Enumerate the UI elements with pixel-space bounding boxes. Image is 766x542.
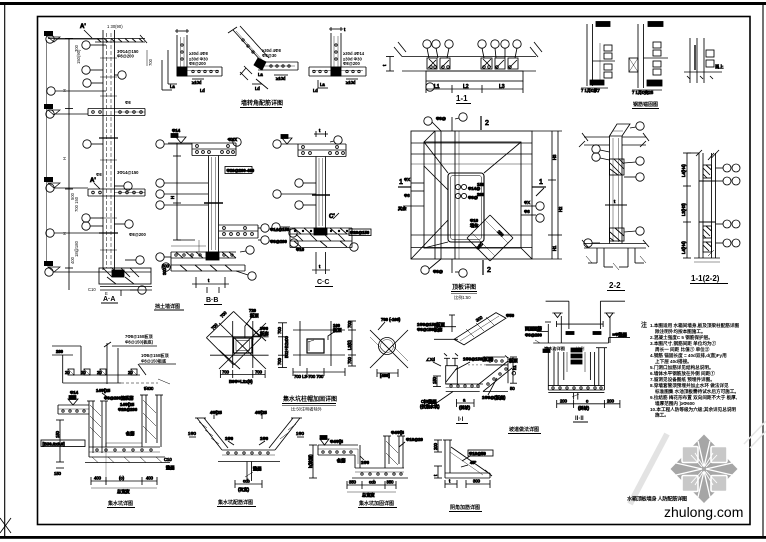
2-2 mid tick bbox=[605, 204, 627, 206]
wall A-A level marker connector line bbox=[46, 40, 48, 266]
svg-text:300: 300 bbox=[162, 267, 167, 275]
svg-text:1Φ8@(板底): 1Φ8@(板底) bbox=[482, 394, 506, 401]
II-II top hooks bbox=[545, 347, 551, 349]
svg-text:H3: H3 bbox=[552, 154, 557, 160]
plan section mark 1 right bbox=[532, 186, 546, 188]
svg-text:ΦX: ΦX bbox=[404, 177, 410, 182]
svg-text:ΦXX: ΦXX bbox=[228, 137, 237, 142]
C-C wall verticals bbox=[315, 157, 317, 229]
wall A-A left dimension line bbox=[68, 38, 70, 290]
plan inner square bbox=[424, 142, 521, 248]
svg-text:Φ10@20: Φ10@20 bbox=[406, 437, 424, 442]
svg-text:Φ8: Φ8 bbox=[125, 100, 131, 105]
2-2 top cap parallelogram bbox=[610, 124, 631, 136]
svg-text:20: 20 bbox=[65, 370, 70, 375]
svg-text:墙体: 墙体 bbox=[470, 222, 479, 229]
svg-text:1Φ8@150(板顶): 1Φ8@150(板顶) bbox=[463, 356, 494, 363]
2-2 hatched box lower bbox=[610, 228, 625, 241]
1-1 top slab band bbox=[402, 56, 536, 58]
svg-text:500: 500 bbox=[162, 264, 170, 269]
svg-text:2: 2 bbox=[485, 120, 489, 127]
svg-text:La: La bbox=[320, 82, 325, 87]
plan section mark 1 left bbox=[398, 186, 411, 188]
svg-text:200: 200 bbox=[560, 399, 568, 404]
ramp detail (mid right) bbox=[417, 313, 515, 345]
svg-text:L4(H4): L4(H4) bbox=[681, 241, 686, 254]
svg-text:H: H bbox=[170, 196, 175, 199]
foundation detail 1 (bottom left U) bbox=[41, 386, 175, 495]
svg-text:700: 700 bbox=[347, 356, 352, 364]
1-1 stirrup boxes right group bbox=[481, 58, 492, 69]
2-2 leader circles bbox=[636, 122, 644, 130]
svg-text:施工。: 施工。 bbox=[654, 412, 669, 419]
I-I left block bbox=[446, 366, 458, 384]
svg-text:≥10d: ≥10d bbox=[276, 76, 286, 81]
svg-text:50: 50 bbox=[510, 386, 515, 391]
B-B rebar label box bbox=[170, 128, 255, 199]
corner detail 1 (L-corner left) bbox=[162, 29, 222, 93]
svg-text:墙厚范围内 ]≥Φ600: 墙厚范围内 ]≥Φ600 bbox=[655, 400, 695, 407]
svg-text:板顶: 板顶 bbox=[250, 312, 259, 319]
diamond right dim bbox=[282, 323, 284, 368]
svg-text:集水坑详图: 集水坑详图 bbox=[107, 500, 133, 507]
angle vertical leg bbox=[444, 440, 446, 478]
diamond circle detail bbox=[370, 317, 408, 378]
svg-text:墙转角配筋详图: 墙转角配筋详图 bbox=[241, 99, 283, 107]
svg-text:3Φ14@150: 3Φ14@150 bbox=[117, 170, 139, 175]
svg-text:挡土墙详图: 挡土墙详图 bbox=[154, 303, 180, 310]
B-B lower slab right bbox=[219, 224, 290, 244]
svg-text:Φ4Φ[5: Φ4Φ[5 bbox=[330, 439, 344, 444]
svg-text:18@180: 18@180 bbox=[74, 240, 79, 257]
wall A-A wall tick marks bbox=[100, 57, 117, 59]
svg-text:La: La bbox=[258, 72, 263, 77]
svg-text:150: 150 bbox=[432, 376, 437, 384]
svg-text:面层配筋: 面层配筋 bbox=[525, 325, 543, 332]
svg-text:H2: H2 bbox=[558, 206, 563, 212]
top-right ladder detail 3 bbox=[684, 38, 723, 83]
svg-text:≥30d 4Φ14: ≥30d 4Φ14 bbox=[343, 51, 365, 56]
svg-text:Φ8@200: Φ8@200 bbox=[129, 232, 147, 237]
svg-text:L4(H4): L4(H4) bbox=[681, 164, 686, 177]
svg-text:上下层 40d搭接。: 上下层 40d搭接。 bbox=[655, 358, 692, 365]
svg-text:板顶: 板顶 bbox=[509, 357, 518, 364]
svg-text:200: 200 bbox=[607, 399, 615, 404]
wall section B-B (middle detail) bbox=[156, 134, 241, 253]
wall A-A section flags bbox=[80, 24, 100, 189]
diamond outline bbox=[206, 311, 233, 337]
C-C extra marks bbox=[290, 218, 316, 220]
section 1-1 (horizontal beam strip) bbox=[382, 40, 542, 93]
corner detail 3 (L-corner right) bbox=[309, 27, 366, 93]
svg-text:2: 2 bbox=[487, 267, 491, 274]
svg-text:各筋: 各筋 bbox=[125, 430, 135, 437]
B-B leader circles bbox=[156, 140, 164, 148]
U2 left flared wall bbox=[197, 418, 222, 450]
F3 bottom dims bbox=[347, 484, 396, 486]
wall A-A rotated dim texts bbox=[62, 24, 123, 296]
angle leader label bbox=[468, 450, 493, 456]
wall A-A rebar label blobs bbox=[96, 49, 147, 237]
svg-text:H: H bbox=[62, 232, 67, 235]
svg-text:总宽度: 总宽度 bbox=[362, 492, 375, 499]
svg-text:Φ8@150(板底): Φ8@150(板底) bbox=[125, 339, 154, 346]
C-C top dim bbox=[314, 133, 328, 135]
plan diagonals bbox=[424, 142, 448, 173]
wall A-A slab level 3 bbox=[88, 188, 145, 190]
svg-text:700 150: 700 150 bbox=[74, 196, 79, 212]
1-1(2-2) verticals bbox=[698, 153, 700, 258]
square grid column detail bbox=[293, 320, 356, 379]
svg-text:700: 700 bbox=[255, 370, 263, 375]
svg-text:200: 200 bbox=[56, 349, 64, 354]
svg-text:垫层: 垫层 bbox=[166, 464, 175, 471]
wall section C-C (third detail) bbox=[273, 128, 346, 228]
II-II dims bbox=[557, 403, 620, 405]
svg-text:标准图集 水池顶板需待试水后方可施工。: 标准图集 水池顶板需待试水后方可施工。 bbox=[654, 388, 739, 395]
svg-text:400: 400 bbox=[94, 476, 102, 481]
angle horizontal leg bbox=[445, 472, 490, 474]
outer border bottom bar bbox=[0, 536, 766, 539]
svg-text:Φ4Φ[5: Φ4Φ[5 bbox=[391, 430, 405, 435]
svg-text:6.墙体水平钢筋放在外侧 间距①: 6.墙体水平钢筋放在外侧 间距① bbox=[650, 370, 715, 377]
svg-text:h(坑深): h(坑深) bbox=[307, 454, 314, 468]
svg-text:9.拉结筋 梅花形布置 双向间距不大于 板厚,: 9.拉结筋 梅花形布置 双向间距不大于 板厚, bbox=[650, 394, 737, 401]
svg-text:[B30.0x9.0]: [B30.0x9.0] bbox=[43, 442, 66, 447]
svg-text:4Φ[25: 4Φ[25 bbox=[210, 410, 222, 415]
svg-text:A': A' bbox=[80, 24, 86, 30]
svg-text:Φ14: Φ14 bbox=[70, 390, 79, 395]
svg-text:L3(H3): L3(H3) bbox=[681, 203, 686, 216]
zhulong logo pinwheel bbox=[671, 435, 738, 504]
diamond column grid bbox=[232, 321, 234, 368]
svg-text:I·I: I·I bbox=[458, 417, 464, 423]
2-2 top slab lines with break bbox=[584, 136, 610, 138]
F3 right wall bbox=[384, 436, 386, 468]
F3 top-left slab bbox=[318, 444, 358, 446]
svg-text:Φ10@50: Φ10@50 bbox=[469, 451, 487, 456]
I-I lower slab bbox=[446, 383, 483, 385]
U1 right wall bbox=[141, 395, 143, 447]
notes block bbox=[641, 321, 739, 419]
II-II right wall bbox=[598, 348, 600, 386]
svg-text:5.门洞口加筋详见结构总说明。: 5.门洞口加筋详见结构总说明。 bbox=[650, 364, 714, 371]
svg-text:A': A' bbox=[90, 178, 96, 184]
svg-text:400: 400 bbox=[146, 476, 154, 481]
wall A-A slab level 2 bbox=[88, 108, 145, 110]
svg-text:Ld: Ld bbox=[255, 86, 260, 91]
plan view (shaft plan) bbox=[398, 113, 563, 277]
U1 bottom slab bbox=[89, 446, 160, 448]
2-2 wall verticals bbox=[609, 136, 611, 244]
svg-text:20: 20 bbox=[128, 370, 133, 375]
svg-text:150: 150 bbox=[54, 471, 62, 476]
U1 left dims bbox=[59, 420, 61, 462]
II-II left wall bbox=[547, 348, 549, 390]
svg-text:≥10d: ≥10d bbox=[346, 80, 356, 85]
plan outer square bbox=[411, 131, 532, 259]
svg-text:Ld: Ld bbox=[200, 88, 205, 93]
top-right ladder detail 1 bbox=[581, 22, 615, 95]
svg-text:垫层: 垫层 bbox=[253, 465, 262, 472]
wall section A-A (tall left elevation) bbox=[48, 30, 152, 296]
svg-text:Ld: Ld bbox=[313, 88, 318, 93]
svg-text:(仅集水坑): (仅集水坑) bbox=[420, 403, 440, 410]
wall A-A level markers bbox=[44, 31, 60, 272]
square grid right dim bbox=[351, 321, 353, 366]
svg-text:(o): (o) bbox=[119, 476, 125, 481]
svg-text:1: 1 bbox=[539, 179, 543, 186]
svg-text:150: 150 bbox=[55, 430, 60, 438]
top-right ladder detail 2 bbox=[629, 22, 668, 97]
svg-text:各筋: 各筋 bbox=[336, 457, 346, 464]
U1 left wall bbox=[88, 401, 90, 457]
1-1 leader circles top bbox=[423, 40, 431, 48]
corner detail 3 rebar labels bbox=[343, 51, 365, 66]
svg-text:C10: C10 bbox=[164, 457, 172, 462]
diamond column center rect bbox=[234, 338, 253, 353]
svg-text:比例1:50: 比例1:50 bbox=[454, 294, 471, 301]
B-B dim line left bbox=[176, 143, 178, 240]
watermark faint diagonal top-right corner bbox=[744, 421, 766, 448]
1-1 bottom dim line bbox=[426, 88, 523, 90]
svg-text:当上: 当上 bbox=[715, 63, 723, 70]
wall A-A verticals bbox=[102, 30, 104, 270]
plan left small leaders bbox=[411, 182, 424, 184]
1-1(2-2) bottom line bbox=[694, 257, 720, 259]
svg-text:H: H bbox=[62, 157, 67, 160]
svg-text:集水坑加固详图: 集水坑加固详图 bbox=[358, 500, 394, 507]
C-C level triangle bbox=[282, 138, 292, 144]
plan right dimension lines bbox=[551, 131, 553, 259]
svg-text:L3: L3 bbox=[499, 84, 505, 90]
svg-text:Φ20@200: Φ20@200 bbox=[118, 407, 138, 412]
foundation detail 3 (step footing) bbox=[307, 430, 424, 499]
C-C top slab bbox=[298, 143, 346, 145]
U1 inner lines bbox=[105, 443, 107, 447]
svg-text:1Φ0: 1Φ0 bbox=[361, 460, 370, 465]
svg-text:(斜坡): (斜坡) bbox=[578, 405, 590, 412]
svg-text:4.钢筋 锚固长度 = 40d双排,d(直)Fy用: 4.钢筋 锚固长度 = 40d双排,d(直)Fy用 bbox=[650, 352, 727, 359]
svg-text:1 30(90): 1 30(90) bbox=[107, 24, 123, 29]
svg-text:cob: cob bbox=[243, 479, 250, 484]
svg-text:其余: 其余 bbox=[398, 205, 407, 212]
svg-text:700: 700 bbox=[347, 320, 352, 328]
svg-text:Φ8: Φ8 bbox=[524, 209, 530, 214]
U1 labels bbox=[41, 440, 85, 447]
svg-text:总宽度: 总宽度 bbox=[117, 488, 130, 495]
plan top-left leader bbox=[424, 117, 432, 125]
svg-text:La: La bbox=[170, 84, 175, 89]
2-2 hatched box upper bbox=[610, 159, 625, 175]
diamond column detail bbox=[206, 308, 289, 384]
wall A-A top roof slab bbox=[48, 38, 145, 40]
mid-band trench profile detail bbox=[52, 342, 176, 384]
svg-text:1Φ0: 1Φ0 bbox=[296, 431, 305, 436]
svg-text:700 L3-700 700: 700 L3-700 700 bbox=[294, 374, 324, 379]
svg-text:1.本图适用 水箱间墙身,板及顶梁柱配筋详图: 1.本图适用 水箱间墙身,板及顶梁柱配筋详图 bbox=[650, 322, 739, 329]
wall A-A top slab hatch bbox=[97, 39, 101, 43]
II-II bottom slab bbox=[548, 385, 604, 387]
svg-text:Φ8@200: Φ8@200 bbox=[270, 239, 288, 244]
svg-text:1: 1 bbox=[399, 179, 403, 186]
plan section mark 2 bottom bbox=[482, 260, 484, 275]
C-C leader circles bbox=[273, 140, 281, 148]
svg-text:Φ8@200: Φ8@200 bbox=[189, 61, 207, 66]
svg-text:≥10d: ≥10d bbox=[192, 80, 202, 85]
svg-text:顶板详图: 顶板详图 bbox=[452, 283, 476, 291]
angle detail (L corner bottom) bbox=[433, 440, 493, 488]
B-B top slab bbox=[192, 142, 236, 144]
svg-text:Φ8: Φ8 bbox=[96, 172, 102, 177]
svg-text:1-1(2-2): 1-1(2-2) bbox=[691, 274, 720, 283]
svg-text:7.留洞见设备图纸 预埋件详图。: 7.留洞见设备图纸 预埋件详图。 bbox=[650, 376, 715, 383]
svg-text:Φ8@: Φ8@ bbox=[436, 116, 446, 121]
svg-text:比:50注明者除外: 比:50注明者除外 bbox=[291, 406, 323, 413]
svg-text:板顶: 板顶 bbox=[333, 327, 342, 334]
II-II pit detail bbox=[543, 348, 620, 412]
svg-text:Φ8@200: Φ8@200 bbox=[343, 61, 361, 66]
plan central opening bbox=[448, 173, 484, 242]
I-I right dims bbox=[512, 357, 514, 383]
svg-text:3.本图尺寸,钢筋间距 单位均为①: 3.本图尺寸,钢筋间距 单位均为① bbox=[650, 340, 717, 347]
angle dims bbox=[437, 440, 439, 452]
svg-text:700: 700 bbox=[222, 370, 230, 375]
U1 bottom dims bbox=[91, 480, 157, 482]
plan bottom-left leader bbox=[421, 266, 429, 274]
svg-text:B02+B2x00: B02+B2x00 bbox=[284, 336, 289, 358]
svg-text:阴角加筋详图: 阴角加筋详图 bbox=[450, 504, 480, 511]
svg-text:700 (-100): 700 (-100) bbox=[381, 317, 401, 322]
svg-text:钢筋锚固图: 钢筋锚固图 bbox=[633, 101, 658, 108]
svg-text:Φ10: Φ10 bbox=[296, 247, 305, 252]
U2 bottom slab bbox=[222, 449, 275, 451]
svg-text:水箱顶板墙身 人防配筋详图: 水箱顶板墙身 人防配筋详图 bbox=[627, 495, 687, 503]
svg-text:Φ8@30: Φ8@30 bbox=[262, 53, 277, 58]
svg-text:700: 700 bbox=[148, 58, 153, 66]
1-1(2-2) top break bbox=[712, 150, 720, 158]
svg-text:350: 350 bbox=[387, 480, 395, 485]
I-I bottom dim bbox=[457, 402, 475, 404]
svg-text:A·A: A·A bbox=[103, 296, 115, 303]
svg-text:集水坑配筋详图: 集水坑配筋详图 bbox=[217, 499, 253, 506]
svg-text:L1: L1 bbox=[434, 84, 440, 90]
2-2 bottom floor bbox=[584, 243, 646, 245]
svg-text:板底: 板底 bbox=[260, 330, 269, 337]
svg-text:[400]: [400] bbox=[380, 373, 390, 378]
svg-text:Φ8@150板底: Φ8@150板底 bbox=[141, 358, 167, 365]
registration X mark at left border bottom bbox=[0, 518, 11, 533]
outer border left line bbox=[4, 4, 6, 537]
svg-text:H: H bbox=[62, 89, 67, 92]
svg-text:Φ8@200: Φ8@200 bbox=[117, 54, 135, 59]
diamond column X diagonals bbox=[219, 323, 266, 369]
svg-text:周长一 间距 比值① 单位②: 周长一 间距 比值① 单位② bbox=[655, 346, 710, 353]
gutter channel detail bbox=[525, 301, 630, 343]
svg-text:≡Φ垫层: ≡Φ垫层 bbox=[613, 331, 628, 338]
svg-text:L3(0): L3(0) bbox=[347, 340, 352, 350]
svg-text:150: 150 bbox=[477, 182, 485, 187]
svg-text:zhulong.com: zhulong.com bbox=[664, 504, 743, 520]
U2 bottom dims bbox=[235, 483, 262, 485]
svg-text:Φ8@200连系筋: Φ8@200连系筋 bbox=[104, 395, 134, 402]
svg-text:Φ20@150: Φ20@150 bbox=[350, 230, 370, 235]
svg-text:700: 700 bbox=[277, 357, 282, 365]
B-B wall verticals bbox=[208, 156, 210, 253]
svg-text:7 1月0承7: 7 1月0承7 bbox=[581, 87, 601, 94]
I-I step detail bbox=[420, 353, 518, 411]
svg-text:350: 350 bbox=[349, 480, 357, 485]
corner detail 2 (diagonal corner) bbox=[228, 26, 298, 91]
svg-text:C': C' bbox=[329, 214, 335, 220]
plan grid verticals bbox=[434, 131, 436, 259]
I-I upper slab right bbox=[486, 364, 508, 366]
svg-text:h1: h1 bbox=[512, 365, 517, 370]
svg-text:45°: 45° bbox=[470, 460, 477, 465]
svg-text:1-1: 1-1 bbox=[456, 94, 468, 103]
svg-text:300: 300 bbox=[473, 479, 481, 484]
U1 top-left slab bbox=[58, 404, 89, 406]
svg-text:H1: H1 bbox=[552, 245, 557, 251]
svg-text:20: 20 bbox=[97, 370, 102, 375]
svg-text:Φ8@: Φ8@ bbox=[433, 269, 443, 274]
svg-text:ΦX: ΦX bbox=[524, 200, 530, 205]
svg-text:7 1月0完25: 7 1月0完25 bbox=[632, 89, 654, 96]
wall A-A leader circles mid bbox=[82, 41, 90, 49]
wall A-A leader circles right bbox=[118, 71, 126, 79]
svg-text:∠Xd: ∠Xd bbox=[426, 357, 436, 362]
F3 step down bbox=[354, 455, 356, 468]
plan inside opening labels bbox=[455, 184, 460, 189]
svg-text:700: 700 bbox=[277, 326, 282, 334]
plan right small leaders bbox=[521, 205, 536, 207]
wall A-A bottom footing bbox=[99, 268, 151, 284]
svg-text:(斜坡): (斜坡) bbox=[459, 404, 471, 411]
wall A-A slab band dots bbox=[92, 111, 95, 114]
svg-text:200: 200 bbox=[477, 192, 485, 197]
svg-text:200: 200 bbox=[433, 442, 438, 450]
I-I incline band bbox=[479, 361, 508, 384]
svg-text:2-2: 2-2 bbox=[609, 281, 621, 290]
outer border right line bbox=[762, 4, 764, 537]
svg-text:II·II: II·II bbox=[575, 416, 584, 422]
plan diamond bottom-right bbox=[467, 215, 490, 238]
svg-text:14Φ[25: 14Φ[25 bbox=[96, 388, 111, 393]
1-1 stirrup boxes left group bbox=[427, 58, 437, 69]
svg-text:1Φ0: 1Φ0 bbox=[225, 436, 234, 441]
diamond bottom dim bbox=[220, 374, 265, 376]
svg-text:C·C: C·C bbox=[317, 279, 329, 286]
svg-text:C10: C10 bbox=[88, 287, 96, 292]
svg-text:B·B: B·B bbox=[206, 297, 218, 304]
svg-text:150(90): 150(90) bbox=[76, 49, 81, 64]
svg-text:8.穿墙套管须预埋并加止水环 做法详见: 8.穿墙套管须预埋并加止水环 做法详见 bbox=[650, 382, 729, 389]
watermark ribbon diagonal left of logo bbox=[630, 434, 667, 504]
U2 right flared wall bbox=[275, 418, 300, 450]
svg-text:Φ20@200-400: Φ20@200-400 bbox=[227, 168, 255, 173]
II-II stem below bbox=[573, 393, 575, 400]
svg-text:Φ8@200: Φ8@200 bbox=[525, 333, 543, 338]
plan grid horizontals bbox=[411, 142, 532, 144]
I-I left dim bbox=[436, 376, 438, 387]
section 1-1(2-2) wall strip detail bbox=[681, 150, 740, 262]
svg-text:集水坑柱帽加固详图: 集水坑柱帽加固详图 bbox=[282, 395, 337, 403]
svg-text:注: 注 bbox=[641, 321, 647, 329]
1-1 beam lower rectangle bbox=[426, 71, 523, 81]
foundation detail 2 (flared U pit) bbox=[188, 410, 305, 493]
svg-text:2.混凝土强度C 5 钢筋保护层。: 2.混凝土强度C 5 钢筋保护层。 bbox=[650, 334, 713, 341]
F3 bottom slab bbox=[355, 467, 404, 469]
